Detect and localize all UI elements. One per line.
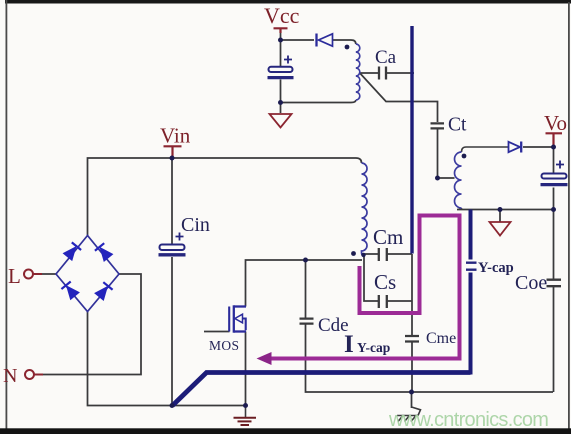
capacitor Cme bbox=[405, 336, 419, 342]
ground (secondary) bbox=[490, 222, 511, 236]
phase dot aux bbox=[345, 45, 350, 50]
capacitor Cs bbox=[379, 295, 387, 308]
phase dot secondary bbox=[462, 154, 467, 159]
secondary winding bbox=[455, 152, 462, 208]
wire: diode to aux winding bbox=[333, 40, 356, 44]
highlighted navy Y-cap branch bbox=[469, 210, 473, 375]
right border line bbox=[568, 2, 570, 429]
node primary bottom bbox=[361, 253, 365, 257]
wire: Ct to secondary tap bbox=[438, 130, 455, 179]
diode D-Vcc (points left) bbox=[317, 34, 333, 47]
wire: chassis stem bbox=[411, 392, 413, 408]
MOS transistor bbox=[229, 305, 246, 332]
wire: bridge bottom to ground rail bbox=[88, 312, 246, 406]
wire: L terminal to bridge bbox=[42, 273, 56, 275]
capacitor C-Vcc (polarized) bbox=[268, 56, 294, 78]
svg-text:Ct: Ct bbox=[448, 115, 467, 136]
wire: MOS gate lead bbox=[204, 331, 230, 333]
svg-text:Cm: Cm bbox=[373, 225, 403, 249]
wire: Cde to bottom rail bbox=[306, 324, 554, 392]
aux winding (Vcc transformer) bbox=[356, 44, 360, 100]
svg-text:MOS: MOS bbox=[209, 338, 239, 353]
wire: Cin branch top bbox=[171, 158, 173, 244]
L terminal circle bbox=[24, 270, 33, 279]
wire: aux tap diagonal to Ct bbox=[360, 73, 438, 122]
wire: Cde branch bbox=[305, 260, 307, 318]
svg-text:Vin: Vin bbox=[160, 124, 191, 148]
svg-text:www.cntronics.com: www.cntronics.com bbox=[388, 409, 548, 431]
capacitor Ca bbox=[379, 67, 386, 80]
bridge diode D2 (top-right) bbox=[95, 243, 113, 261]
wire: secondary ground stem bbox=[499, 210, 501, 223]
primary winding bbox=[362, 163, 368, 255]
node Cin bottom bbox=[170, 403, 175, 408]
earth ground (MOS source) bbox=[234, 406, 257, 426]
svg-text:Cs: Cs bbox=[374, 270, 396, 294]
wire: MOS drain to primary bbox=[246, 260, 363, 307]
N terminal circle bbox=[25, 370, 34, 379]
node MOS source ground bbox=[243, 403, 248, 408]
svg-text:Y-cap: Y-cap bbox=[478, 260, 514, 276]
svg-text:Ca: Ca bbox=[375, 47, 397, 68]
node Cme bottom bbox=[409, 390, 414, 395]
bottom black bar bbox=[0, 428, 571, 434]
node Vo cap bottom bbox=[551, 207, 556, 212]
bridge rectifier frame bbox=[56, 236, 119, 312]
Vcc terminal tick bbox=[274, 28, 288, 33]
node Vin bbox=[170, 156, 175, 161]
left border line bbox=[6, 0, 8, 429]
svg-text:Cin: Cin bbox=[181, 214, 210, 236]
wire: Vin rail bbox=[88, 158, 362, 236]
purple arrow head bbox=[257, 352, 272, 365]
diode D-Vo (points right) bbox=[509, 142, 522, 153]
capacitor C-Vo (polarized) bbox=[541, 161, 568, 185]
capacitor Ct bbox=[431, 123, 445, 128]
wire: aux winding bottom loop bbox=[281, 80, 356, 114]
capacitor Cde bbox=[300, 319, 314, 324]
ground (Vcc) bbox=[270, 114, 292, 128]
svg-text:N: N bbox=[3, 365, 17, 387]
wire: Ca to highlighted node bbox=[387, 72, 415, 74]
bridge diode D3 (bottom-left) bbox=[61, 281, 79, 299]
purple I Y-cap current path bbox=[271, 216, 460, 359]
wire: Cm left bbox=[362, 253, 378, 255]
wire: Cs loop bbox=[364, 256, 412, 301]
svg-text:Cme: Cme bbox=[426, 330, 456, 347]
top border bar bbox=[5, 0, 571, 4]
capacitor Y-cap bbox=[466, 263, 477, 270]
wire: Vo diode to Vo node bbox=[523, 146, 554, 148]
svg-text:Vo: Vo bbox=[544, 111, 567, 135]
highlighted navy node line (top) bbox=[410, 26, 413, 254]
wire: node line Cm to Cme bbox=[411, 254, 413, 392]
wire: Vo cap branch bbox=[553, 147, 555, 210]
wire: output right rail bbox=[553, 210, 555, 393]
bridge diode D1 (top-left) bbox=[63, 242, 81, 260]
wire: Vcc top node to diode bbox=[281, 29, 315, 67]
svg-text:I: I bbox=[344, 331, 354, 358]
svg-text:L: L bbox=[8, 264, 21, 288]
node Vcc bottom bbox=[278, 100, 283, 105]
node Cde top bbox=[303, 258, 308, 263]
chassis ground (Cme, tilted) bbox=[397, 407, 421, 422]
Vo terminal tick bbox=[546, 133, 563, 147]
svg-text:Vcc: Vcc bbox=[264, 3, 300, 28]
wire: secondary ground rail bbox=[457, 208, 554, 210]
node Vo bbox=[551, 145, 556, 150]
capacitor Coe bbox=[547, 280, 562, 287]
wire: MOS source to ground rail bbox=[245, 332, 247, 406]
phase dot primary bbox=[351, 251, 356, 256]
wire: aux tap to Ca bbox=[360, 72, 378, 74]
capacitor Cin bbox=[159, 233, 186, 255]
svg-text:Y-cap: Y-cap bbox=[357, 340, 390, 355]
svg-text:Coe: Coe bbox=[515, 272, 547, 294]
node Vcc top bbox=[278, 38, 283, 43]
node Ct-secondary bbox=[435, 176, 440, 181]
wire: bridge to N loop bbox=[43, 274, 141, 375]
node secondary ground bbox=[498, 207, 503, 212]
Vin terminal tick bbox=[164, 146, 182, 158]
wire: Cm right to node line bbox=[388, 253, 413, 255]
bridge diode D4 (bottom-right) bbox=[95, 282, 113, 300]
wire: secondary top lead bbox=[462, 147, 509, 152]
capacitor Cm bbox=[379, 248, 387, 261]
highlighted navy return path (bottom) bbox=[173, 373, 471, 406]
wire: Cin branch bottom bbox=[171, 257, 173, 406]
